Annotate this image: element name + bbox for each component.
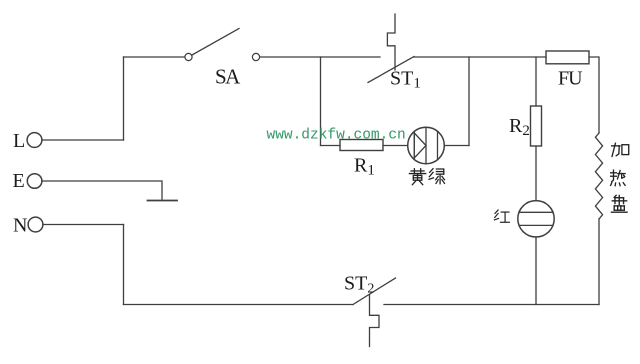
terminal E xyxy=(13,170,42,192)
label hong (red) xyxy=(494,210,509,222)
wire N terminal to left bus xyxy=(43,224,124,226)
wire E to ground xyxy=(42,181,162,199)
wire red lamp to bottom bus xyxy=(535,237,537,305)
wire lamp to right branch xyxy=(444,145,469,147)
fuse FU xyxy=(546,51,589,90)
label jia-re-pan (heating plate) xyxy=(612,143,629,156)
wire lamp branch vertical up to top row xyxy=(468,57,470,146)
thermostat ST2 xyxy=(344,273,396,347)
terminal L xyxy=(13,130,42,152)
terminal N xyxy=(13,215,43,237)
wire left bus vertical (N row down to bottom bus) xyxy=(123,225,125,305)
svg-text:FU: FU xyxy=(558,68,583,90)
wire fuse to right bus corner xyxy=(589,57,599,133)
wire bottom bus left (ST2 to left bus) xyxy=(124,304,354,306)
svg-text:N: N xyxy=(13,215,27,237)
wire ST1 to fuse FU xyxy=(414,56,546,58)
heater element (zigzag) xyxy=(595,133,602,219)
wire R1 to lamp xyxy=(383,145,408,147)
wire SA to ST1 fixed contact xyxy=(260,56,380,58)
wire branch down to R1 (node at x=320.5) xyxy=(320,57,322,146)
wire L terminal to left bus xyxy=(42,139,124,141)
resistor R1 xyxy=(340,140,383,179)
svg-text:L: L xyxy=(13,130,25,152)
lamp red (indicator) xyxy=(518,201,554,237)
svg-text:SA: SA xyxy=(215,65,241,89)
wire right bus lower xyxy=(598,219,600,305)
resistor R2 xyxy=(509,106,542,146)
lamp yellow-green (indicator) xyxy=(408,127,445,164)
svg-text:www.dzkfw.com.cn: www.dzkfw.com.cn xyxy=(267,128,406,144)
switch SA xyxy=(185,29,260,89)
svg-text:E: E xyxy=(13,170,25,192)
wire R1 left lead xyxy=(321,145,341,147)
ground xyxy=(148,200,178,202)
label huang-lv (yellow-green) xyxy=(409,169,425,185)
wire top row to SA xyxy=(124,56,185,58)
thermostat ST1 xyxy=(368,14,421,92)
wire left bus vertical up to SA row xyxy=(123,57,125,140)
wire bottom bus right (right bus to ST2) xyxy=(384,304,599,306)
wire R2 to red lamp xyxy=(535,146,537,201)
wire R2 top lead (node at x=536) xyxy=(535,57,537,106)
